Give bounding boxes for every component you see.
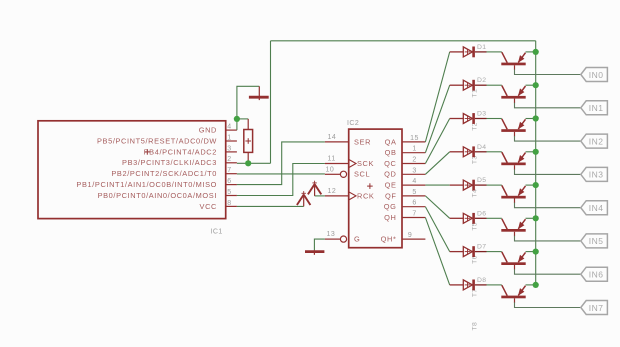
node IN1 output tag bbox=[581, 101, 608, 115]
svg-text:9: 9 bbox=[408, 232, 412, 239]
IC2 pin 1 (QB) bbox=[385, 146, 426, 157]
IC2 pin 13 G (inverted) bbox=[325, 231, 360, 243]
svg-text:1: 1 bbox=[412, 146, 416, 153]
svg-text:IN0: IN0 bbox=[589, 70, 604, 80]
svg-text:IC1: IC1 bbox=[211, 229, 223, 236]
wire QE to diode D5 bbox=[425, 184, 449, 186]
wire diode to collector bbox=[487, 151, 502, 153]
ic IC2 box bbox=[349, 129, 402, 248]
wire QA to diode D1 bbox=[425, 52, 449, 142]
svg-text:PB0/PCINT0/AIN0/OC0A/MOSI: PB0/PCINT0/AIN0/OC0A/MOSI bbox=[98, 191, 217, 200]
svg-text:4: 4 bbox=[412, 178, 416, 185]
svg-text:GND: GND bbox=[199, 126, 217, 135]
svg-text:8: 8 bbox=[227, 200, 231, 207]
IC1 pin 3 (PB4/PCINT4/ADC2) bbox=[144, 145, 237, 156]
IC2 pin 4 (QE) bbox=[385, 178, 426, 189]
svg-text:QC: QC bbox=[384, 159, 396, 168]
wire emitter to rail bbox=[526, 151, 536, 153]
wire emitter to rail bbox=[526, 184, 536, 186]
svg-text:QB: QB bbox=[385, 148, 397, 157]
IC2 pin 15 (QA) bbox=[385, 135, 426, 146]
wire base to IN3 tag bbox=[515, 169, 581, 174]
IC2 pin 9 (QH*) bbox=[381, 232, 426, 243]
diode D3 bbox=[450, 113, 487, 124]
svg-text:IN2: IN2 bbox=[589, 136, 604, 146]
node emitter rail junction bbox=[533, 182, 539, 188]
svg-text:QH: QH bbox=[384, 213, 396, 222]
node IN3 output tag bbox=[581, 167, 608, 181]
wire base to IN4 tag bbox=[515, 203, 581, 208]
wire RCK to supply arrow 2 bbox=[315, 195, 325, 197]
svg-text:D1: D1 bbox=[477, 44, 486, 51]
wire diode to collector bbox=[487, 51, 502, 53]
IC2 pin 6 (QG) bbox=[384, 200, 426, 211]
wire pin4 GND to gnd symbol and resistor bbox=[237, 86, 259, 130]
wire emitter to rail bbox=[526, 217, 536, 219]
svg-text:7: 7 bbox=[227, 167, 231, 174]
wire base to IN5 tag bbox=[515, 236, 581, 241]
wire base to IN0 tag bbox=[515, 69, 581, 74]
svg-text:D7: D7 bbox=[477, 244, 486, 251]
svg-text:13: 13 bbox=[327, 231, 336, 238]
wire QG to diode D7 bbox=[425, 207, 449, 252]
svg-text:PB1/PCINT1/AIN1/OC0B/INT0/MISO: PB1/PCINT1/AIN1/OC0B/INT0/MISO bbox=[76, 180, 217, 189]
wire diode to collector bbox=[487, 184, 502, 186]
svg-text:PB3/PCINT3/CLKI/ADC3: PB3/PCINT3/CLKI/ADC3 bbox=[122, 158, 217, 167]
transistor T1 bbox=[501, 52, 525, 70]
wire base to IN7 tag bbox=[515, 302, 581, 307]
svg-text:D2: D2 bbox=[477, 77, 486, 84]
svg-text:D6: D6 bbox=[477, 210, 486, 217]
resistor R1 bbox=[244, 119, 253, 163]
svg-text:VCC: VCC bbox=[200, 202, 218, 211]
transistor T5 bbox=[501, 185, 525, 203]
node junction at pin4 bbox=[234, 116, 240, 122]
svg-text:IN1: IN1 bbox=[589, 103, 604, 113]
svg-text:QA: QA bbox=[385, 137, 397, 146]
svg-text:6: 6 bbox=[412, 200, 416, 207]
transistor T8 bbox=[501, 285, 525, 303]
IC1 pin 4 (GND) bbox=[199, 124, 237, 135]
svg-text:QD: QD bbox=[384, 170, 396, 179]
wire emitter to rail bbox=[526, 118, 536, 120]
node IN5 output tag bbox=[581, 234, 608, 248]
svg-text:IN4: IN4 bbox=[589, 203, 604, 213]
node emitter rail junction bbox=[533, 249, 539, 255]
node emitter rail junction bbox=[533, 49, 539, 55]
node emitter rail junction bbox=[533, 215, 539, 221]
diode D4 bbox=[450, 146, 487, 157]
wire base to IN2 tag bbox=[515, 136, 581, 141]
svg-text:14: 14 bbox=[328, 134, 337, 141]
wire G pin13 to ground bbox=[314, 239, 325, 250]
svg-text:6: 6 bbox=[227, 178, 231, 185]
svg-text:D3: D3 bbox=[477, 111, 486, 118]
svg-text:RCK: RCK bbox=[357, 191, 374, 200]
IC1 pin 5 (PB0/PCINT0/AIN0/OC0A/MOSI) bbox=[98, 189, 237, 200]
wire QD to diode D4 bbox=[425, 152, 449, 175]
svg-text:12: 12 bbox=[328, 188, 337, 195]
transistor T4 bbox=[501, 152, 525, 170]
svg-text:3: 3 bbox=[412, 167, 416, 174]
wire PB2 to SCL bbox=[237, 173, 325, 175]
transistor T3 bbox=[501, 119, 525, 137]
wire diode to collector bbox=[487, 284, 502, 286]
wire emitter to rail bbox=[526, 84, 536, 86]
svg-text:10: 10 bbox=[326, 166, 335, 173]
svg-text:PB4/PCINT4/ADC2: PB4/PCINT4/ADC2 bbox=[144, 147, 217, 156]
svg-text:SER: SER bbox=[354, 137, 371, 146]
svg-text:1: 1 bbox=[227, 134, 231, 141]
node emitter rail junction bbox=[533, 82, 539, 88]
svg-text:IN6: IN6 bbox=[589, 270, 604, 280]
svg-text:IN3: IN3 bbox=[589, 170, 604, 180]
IC1 pin 8 (VCC) bbox=[200, 200, 237, 211]
svg-text:QE: QE bbox=[385, 181, 397, 190]
wire pin2 row to vertical rail bbox=[237, 162, 271, 164]
wire diode to collector bbox=[487, 251, 502, 253]
svg-text:7: 7 bbox=[412, 211, 416, 218]
svg-text:4: 4 bbox=[227, 124, 231, 131]
svg-text:15: 15 bbox=[410, 135, 419, 142]
IC1 pin 2 (PB3/PCINT3/CLKI/ADC3) bbox=[122, 156, 237, 167]
svg-text:PB5/PCINT5/RESET/ADC0/DW: PB5/PCINT5/RESET/ADC0/DW bbox=[97, 136, 217, 145]
svg-text:QG: QG bbox=[384, 202, 397, 211]
IC2 pin 3 (QD) bbox=[384, 167, 425, 178]
svg-text:5: 5 bbox=[227, 189, 231, 196]
svg-text:11: 11 bbox=[328, 156, 336, 163]
node IN2 output tag bbox=[581, 134, 608, 148]
diode D8 bbox=[450, 280, 487, 291]
wire vertical riser to top rail bbox=[270, 41, 272, 164]
svg-text:2: 2 bbox=[227, 156, 231, 163]
transistor T6 bbox=[501, 219, 525, 237]
node junction at resistor bottom bbox=[245, 160, 251, 166]
wire base to IN1 tag bbox=[515, 103, 581, 108]
svg-text:SCL: SCL bbox=[354, 170, 370, 179]
IC2 pin 10 SCL (inverted) bbox=[325, 166, 370, 178]
svg-text:IN5: IN5 bbox=[589, 236, 604, 246]
svg-text:D8: D8 bbox=[477, 277, 486, 284]
svg-text:QH*: QH* bbox=[381, 235, 397, 244]
svg-text:IC2: IC2 bbox=[347, 120, 359, 127]
wire PB1 to SER bbox=[237, 142, 325, 185]
diode D7 bbox=[450, 246, 487, 257]
wire emitter to rail bbox=[526, 284, 536, 286]
svg-text:T8: T8 bbox=[471, 322, 478, 331]
wire diode to collector bbox=[487, 118, 502, 120]
wire top horizontal rail bbox=[271, 40, 536, 42]
transistor T7 bbox=[501, 252, 525, 270]
ic IC1 box bbox=[38, 121, 226, 219]
node emitter rail junction bbox=[533, 282, 539, 288]
diode D5 bbox=[450, 180, 487, 191]
wire QB to diode D2 bbox=[425, 85, 449, 153]
wire QF to diode D6 bbox=[425, 196, 449, 218]
node IN7 output tag bbox=[581, 301, 608, 315]
IC1 pin 1 (PB5/PCINT5/RESET/ADC0/DW) bbox=[97, 134, 237, 145]
wire emitter to rail bbox=[526, 251, 536, 253]
IC2 pin 7 (QH) bbox=[384, 211, 425, 222]
node IN6 output tag bbox=[581, 267, 608, 281]
svg-text:IN7: IN7 bbox=[589, 303, 604, 313]
IC2 pin 11 SCK (clock) bbox=[325, 156, 374, 168]
wire QH to diode D8 bbox=[425, 218, 449, 285]
svg-text:G: G bbox=[354, 235, 360, 244]
svg-text:3: 3 bbox=[227, 145, 231, 152]
IC2 pin 2 (QC) bbox=[384, 157, 425, 168]
wire emitter rail vertical bbox=[535, 41, 537, 285]
svg-text:D4: D4 bbox=[477, 144, 486, 151]
wire PB0 to SCK bbox=[237, 164, 325, 196]
svg-text:PB2/PCINT2/SCK/ADC1/T0: PB2/PCINT2/SCK/ADC1/T0 bbox=[111, 169, 217, 178]
diode D1 bbox=[450, 47, 487, 58]
IC2 pin 12 RCK (clock) bbox=[325, 188, 375, 200]
svg-text:5: 5 bbox=[412, 189, 416, 196]
supply symbol VCC arrow 1 bbox=[297, 191, 311, 206]
node emitter rail junction bbox=[533, 115, 539, 121]
IC2 pin 14 SER bbox=[325, 134, 371, 146]
wire diode to collector bbox=[487, 217, 502, 219]
wire QC to diode D3 bbox=[425, 119, 449, 164]
transistor T2 bbox=[501, 86, 525, 104]
svg-text:D5: D5 bbox=[477, 177, 486, 184]
IC1 pin 6 (PB1/PCINT1/AIN1/OC0B/INT0/MISO) bbox=[76, 178, 236, 189]
IC2 pin 5 (QF) bbox=[385, 189, 425, 200]
diode D2 bbox=[450, 80, 487, 91]
diode D6 bbox=[450, 213, 487, 224]
node IN0 output tag bbox=[581, 68, 608, 82]
node emitter rail junction bbox=[533, 149, 539, 155]
svg-text:SCK: SCK bbox=[357, 159, 374, 168]
IC1 pin 7 (PB2/PCINT2/SCK/ADC1/T0) bbox=[111, 167, 237, 178]
ground symbol GND1 bbox=[249, 86, 269, 100]
ground symbol GND2 bbox=[305, 250, 324, 255]
wire diode to collector bbox=[487, 84, 502, 86]
wire base to IN6 tag bbox=[515, 269, 581, 274]
svg-text:2: 2 bbox=[412, 157, 416, 164]
wire VCC pin8 to supply arrow bbox=[237, 205, 304, 207]
node IN4 output tag bbox=[581, 201, 608, 215]
svg-text:QF: QF bbox=[385, 191, 397, 200]
supply symbol VCC arrow 2 bbox=[308, 181, 321, 196]
wire emitter to rail bbox=[526, 51, 536, 53]
